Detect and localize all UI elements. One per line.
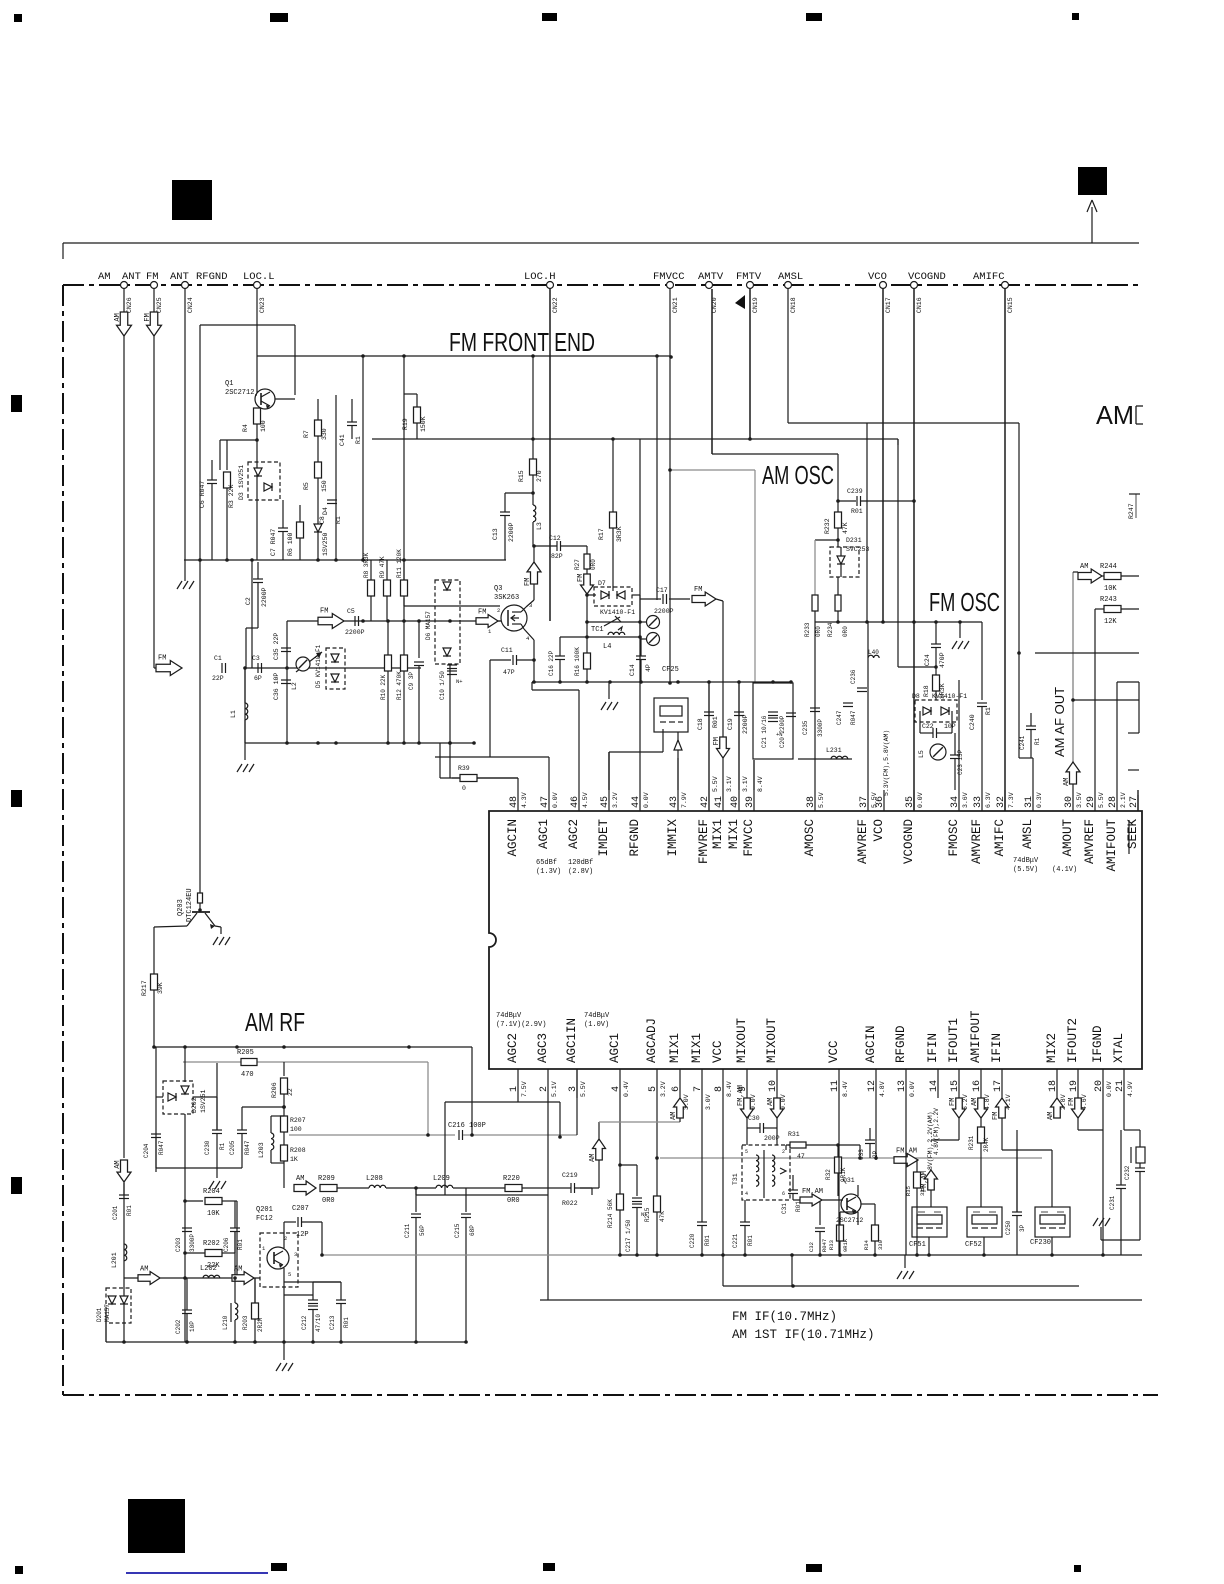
svg-text:AM OSC: AM OSC	[762, 460, 834, 490]
svg-text:4P: 4P	[645, 664, 652, 672]
svg-text:9R1K: 9R1K	[842, 1238, 849, 1252]
svg-text:AMSL: AMSL	[778, 271, 803, 283]
svg-text:3R3K: 3R3K	[616, 526, 623, 542]
svg-text:C35 22P: C35 22P	[273, 633, 280, 660]
svg-text:C18: C18	[697, 718, 704, 730]
svg-text:MA157: MA157	[104, 1304, 111, 1322]
svg-text:R19: R19	[402, 418, 409, 430]
svg-text:C230: C230	[204, 1140, 211, 1155]
svg-text:22: 22	[287, 1088, 294, 1096]
svg-text:C236: C236	[850, 669, 857, 684]
svg-text:0.3V: 0.3V	[1036, 792, 1043, 808]
svg-text:DTC124EU: DTC124EU	[186, 888, 194, 922]
svg-text:MIXOUT: MIXOUT	[765, 1017, 779, 1063]
svg-text:C211: C211	[404, 1223, 411, 1238]
svg-text:C32: C32	[808, 1242, 815, 1252]
svg-text:AM: AM	[1063, 778, 1071, 786]
svg-text:1SV250: 1SV250	[322, 532, 329, 556]
svg-text:R220: R220	[503, 1175, 520, 1183]
svg-text:FM: FM	[144, 313, 152, 321]
svg-text:R206: R206	[271, 1082, 278, 1098]
svg-text:4: 4	[745, 1191, 748, 1197]
svg-text:2: 2	[497, 607, 500, 614]
svg-text:AMVREF: AMVREF	[1083, 819, 1097, 864]
svg-text:KV1410-F1: KV1410-F1	[600, 609, 635, 616]
svg-text:MIX1: MIX1	[711, 819, 725, 849]
svg-text:MIX1: MIX1	[668, 1033, 682, 1063]
svg-text:L203: L203	[258, 1142, 265, 1158]
svg-text:2R2M: 2R2M	[257, 1317, 264, 1332]
svg-text:R10 22K: R10 22K	[380, 674, 387, 700]
svg-text:R33: R33	[828, 1240, 835, 1250]
svg-text:R01: R01	[712, 716, 719, 728]
svg-text:VCO: VCO	[872, 819, 886, 842]
svg-text:L210: L210	[222, 1315, 229, 1330]
svg-text:AM: AM	[971, 1098, 979, 1106]
svg-text:5: 5	[745, 1149, 748, 1155]
svg-text:D231: D231	[846, 537, 862, 544]
svg-text:C9 3P: C9 3P	[408, 672, 415, 690]
svg-text:Q1: Q1	[225, 380, 233, 388]
svg-text:R047: R047	[850, 710, 857, 725]
svg-text:IFIN: IFIN	[990, 1033, 1004, 1063]
svg-text:R27: R27	[574, 559, 581, 570]
svg-text:CN25: CN25	[156, 297, 163, 313]
svg-text:FM OSC: FM OSC	[929, 587, 1000, 617]
svg-text:L1: L1	[230, 710, 237, 718]
svg-text:D202: D202	[191, 1097, 198, 1113]
svg-text:C235: C235	[802, 720, 809, 735]
svg-text:AM: AM	[767, 1098, 775, 1106]
svg-text:FM: FM	[694, 586, 702, 594]
svg-text:C21 10/16: C21 10/16	[761, 715, 768, 748]
svg-text:4.6V: 4.6V	[1081, 1094, 1088, 1110]
svg-text:65dBf: 65dBf	[536, 859, 557, 867]
svg-text:74dBμV: 74dBμV	[496, 1012, 522, 1020]
svg-text:0R0: 0R0	[322, 1197, 335, 1205]
svg-text:R01: R01	[704, 1235, 711, 1246]
svg-text:XTAL: XTAL	[1112, 1033, 1126, 1063]
svg-text:3: 3	[294, 1251, 297, 1258]
svg-text:5.1V: 5.1V	[551, 1081, 558, 1097]
svg-text:(5.5V): (5.5V)	[1013, 866, 1038, 874]
svg-text:22P: 22P	[212, 675, 224, 682]
svg-text:5.5V: 5.5V	[712, 776, 719, 792]
svg-text:200P: 200P	[764, 1135, 780, 1142]
svg-text:7.3V: 7.3V	[1008, 792, 1015, 808]
svg-text:8.4V: 8.4V	[726, 1081, 733, 1097]
svg-text:1K: 1K	[290, 1156, 298, 1163]
svg-text:R208: R208	[290, 1147, 306, 1154]
svg-text:CN18: CN18	[790, 297, 797, 313]
svg-text:5: 5	[288, 1271, 291, 1278]
svg-text:CN23: CN23	[259, 297, 266, 313]
svg-text:AGC2: AGC2	[567, 819, 581, 849]
svg-text:56P: 56P	[419, 1225, 426, 1236]
svg-text:C247: C247	[836, 710, 843, 725]
svg-text:C3: C3	[252, 655, 260, 662]
svg-text:5.5V: 5.5V	[818, 792, 825, 808]
svg-text:C30: C30	[748, 1115, 760, 1122]
svg-text:C7 R047: C7 R047	[270, 529, 277, 556]
svg-text:CF51: CF51	[909, 1241, 926, 1249]
svg-text:R11 120K: R11 120K	[396, 549, 403, 578]
svg-text:2200P: 2200P	[654, 608, 674, 615]
svg-text:2200P: 2200P	[508, 522, 515, 542]
svg-text:IFIN: IFIN	[926, 1033, 940, 1063]
svg-text:AGCIN: AGCIN	[506, 819, 520, 857]
svg-text:0.0V: 0.0V	[909, 1081, 916, 1097]
svg-text:D5 KV1410-F1: D5 KV1410-F1	[315, 644, 322, 688]
svg-text:0R0: 0R0	[815, 626, 822, 637]
svg-text:R231: R231	[968, 1135, 975, 1150]
svg-text:FMVCC: FMVCC	[742, 819, 756, 857]
svg-text:6: 6	[782, 1191, 785, 1197]
svg-text:L3: L3	[536, 522, 543, 530]
svg-text:C24: C24	[924, 654, 931, 666]
svg-text:CF25: CF25	[662, 666, 679, 674]
svg-text:4.5V: 4.5V	[582, 792, 589, 808]
svg-text:C239: C239	[847, 488, 863, 495]
svg-text:AM: AM	[296, 1175, 304, 1183]
svg-text:R18: R18	[923, 685, 930, 697]
svg-text:8.4V: 8.4V	[842, 1081, 849, 1097]
svg-text:C10 1/50: C10 1/50	[439, 671, 446, 700]
svg-text:C1: C1	[214, 655, 222, 662]
svg-text:270: 270	[536, 470, 543, 482]
svg-text:C201: C201	[112, 1205, 119, 1220]
svg-text:(4.1V): (4.1V)	[1052, 866, 1077, 874]
svg-text:100: 100	[260, 420, 267, 432]
svg-text:Q31: Q31	[843, 1177, 855, 1184]
svg-text:5.3V(FM),5.8V(AM): 5.3V(FM),5.8V(AM)	[883, 730, 890, 796]
svg-text:MIX1: MIX1	[727, 819, 741, 849]
svg-text:IFOUT2: IFOUT2	[1066, 1018, 1080, 1063]
svg-text:2.8V: 2.8V	[1060, 1094, 1067, 1110]
svg-text:CN26: CN26	[126, 297, 133, 313]
svg-text:6.2V: 6.2V	[962, 1094, 969, 1110]
svg-text:D201: D201	[96, 1307, 103, 1322]
svg-text:L231: L231	[826, 747, 842, 754]
svg-text:R01: R01	[851, 508, 863, 515]
svg-text:AMIFC: AMIFC	[973, 271, 1005, 283]
svg-text:7.5V: 7.5V	[521, 1081, 528, 1097]
svg-text:Q201: Q201	[256, 1206, 273, 1214]
svg-text:R01: R01	[343, 1317, 350, 1328]
svg-text:R202: R202	[203, 1240, 220, 1248]
svg-text:AM: AM	[589, 1154, 597, 1162]
svg-text:(1.0V): (1.0V)	[584, 1021, 609, 1029]
svg-text:0R0: 0R0	[590, 559, 597, 570]
svg-text:R232: R232	[824, 518, 831, 534]
svg-text:C206: C206	[223, 1237, 230, 1252]
svg-text:8.4V: 8.4V	[757, 776, 764, 792]
svg-text:MIX2: MIX2	[1045, 1033, 1059, 1063]
svg-text:FM: FM	[158, 655, 166, 663]
svg-text:C219: C219	[562, 1172, 578, 1179]
svg-text:TC1: TC1	[591, 626, 604, 634]
svg-text:CN21: CN21	[672, 297, 679, 313]
svg-text:C17: C17	[656, 587, 668, 594]
svg-text:R39: R39	[458, 765, 470, 772]
svg-text:R207: R207	[290, 1117, 306, 1124]
svg-text:AM: AM	[1096, 400, 1134, 430]
svg-text:C250: C250	[1005, 1220, 1012, 1235]
svg-text:L202: L202	[200, 1265, 217, 1273]
svg-text:R234: R234	[827, 622, 834, 637]
svg-text:47: 47	[797, 1153, 805, 1160]
svg-text:0R0: 0R0	[842, 626, 849, 637]
svg-text:LOC.L: LOC.L	[243, 271, 275, 283]
svg-text:L201: L201	[111, 1252, 118, 1268]
svg-text:L2: L2	[291, 682, 298, 690]
svg-text:VCOGND: VCOGND	[902, 819, 916, 864]
svg-text:FM: FM	[949, 1098, 957, 1106]
svg-text:FM FRONT END: FM FRONT END	[449, 327, 595, 357]
svg-text:FM: FM	[577, 574, 585, 582]
svg-text:AGC1: AGC1	[608, 1033, 622, 1063]
svg-text:R32: R32	[825, 1169, 832, 1180]
svg-text:AGCIN: AGCIN	[864, 1025, 878, 1063]
svg-text:C232: C232	[1124, 1165, 1131, 1180]
svg-text:3.0V: 3.0V	[705, 1094, 712, 1110]
svg-text:AM: AM	[1080, 563, 1088, 571]
svg-text:68P: 68P	[469, 1225, 476, 1236]
svg-text:R233: R233	[804, 622, 811, 637]
svg-text:AM: AM	[234, 1266, 242, 1274]
svg-text:AM: AM	[114, 313, 122, 321]
svg-text:FM,AM: FM,AM	[802, 1188, 823, 1196]
svg-text:AGC1: AGC1	[537, 819, 551, 849]
svg-text:C36 10P: C36 10P	[273, 673, 280, 700]
svg-text:CN22: CN22	[552, 297, 559, 313]
svg-text:C5: C5	[347, 608, 355, 615]
svg-text:3300P: 3300P	[817, 719, 824, 737]
svg-text:AM 1ST IF(10.71MHz): AM 1ST IF(10.71MHz)	[732, 1328, 875, 1342]
svg-text:Q3: Q3	[494, 585, 502, 593]
svg-text:82P: 82P	[551, 553, 563, 560]
svg-text:FMOSC: FMOSC	[947, 819, 961, 857]
svg-text:AM: AM	[1047, 1112, 1055, 1120]
svg-text:0.0V: 0.0V	[780, 1094, 787, 1110]
svg-text:2: 2	[782, 1149, 785, 1155]
svg-text:C213: C213	[329, 1315, 336, 1330]
svg-text:MIX1: MIX1	[690, 1033, 704, 1063]
svg-text:3.2V: 3.2V	[612, 792, 619, 808]
svg-text:AM AF OUT: AM AF OUT	[1052, 687, 1067, 757]
svg-text:MIXOUT: MIXOUT	[735, 1017, 749, 1063]
svg-text:4.8V(FM),2.2V: 4.8V(FM),2.2V	[933, 1108, 940, 1155]
svg-text:AMIFOUT: AMIFOUT	[1105, 819, 1119, 872]
svg-text:(1.3V): (1.3V)	[536, 868, 561, 876]
svg-text:2R4K: 2R4K	[983, 1137, 990, 1152]
svg-text:CN24: CN24	[187, 297, 194, 313]
svg-text:D4: D4	[322, 507, 329, 515]
svg-text:(7.1V)(2.9V): (7.1V)(2.9V)	[496, 1021, 546, 1029]
svg-text:10K: 10K	[1104, 585, 1117, 593]
svg-text:2200P: 2200P	[345, 629, 365, 636]
svg-text:470: 470	[241, 1071, 254, 1079]
svg-text:3P: 3P	[1019, 1224, 1026, 1232]
svg-text:C2: C2	[245, 597, 252, 605]
svg-text:R17: R17	[598, 528, 605, 540]
svg-text:CN19: CN19	[752, 297, 759, 313]
svg-text:C216 100P: C216 100P	[448, 1122, 486, 1130]
svg-text:5.5V: 5.5V	[580, 1081, 587, 1097]
svg-text:FM: FM	[146, 271, 159, 283]
svg-text:AM: AM	[98, 271, 111, 283]
svg-text:C16 22P: C16 22P	[548, 650, 555, 676]
svg-text:R3 22K: R3 22K	[228, 484, 235, 508]
svg-text:FM: FM	[524, 578, 532, 586]
svg-text:CN17: CN17	[885, 297, 892, 313]
svg-text:R34: R34	[863, 1239, 870, 1250]
svg-text:R01: R01	[237, 1239, 244, 1250]
svg-text:C207: C207	[292, 1205, 309, 1213]
svg-text:0.4V: 0.4V	[623, 1081, 630, 1097]
svg-text:6.3V: 6.3V	[985, 792, 992, 808]
svg-text:2200P: 2200P	[261, 587, 268, 607]
svg-text:R1: R1	[355, 436, 362, 444]
svg-text:120dBf: 120dBf	[568, 859, 593, 867]
svg-text:FM: FM	[992, 1112, 1000, 1120]
svg-text:R8 3R3K: R8 3R3K	[363, 552, 370, 578]
svg-text:D6 MA157: D6 MA157	[425, 611, 432, 640]
svg-text:AM: AM	[670, 1112, 678, 1120]
svg-text:D3 1SV251: D3 1SV251	[238, 465, 245, 500]
svg-text:CN16: CN16	[916, 297, 923, 313]
svg-text:470P: 470P	[939, 652, 946, 668]
svg-text:C240: C240	[969, 714, 976, 730]
svg-text:R244: R244	[1100, 563, 1117, 571]
svg-text:4.9V: 4.9V	[1127, 1081, 1134, 1097]
svg-text:C212: C212	[301, 1315, 308, 1330]
svg-text:L209: L209	[433, 1175, 450, 1183]
svg-text:D7: D7	[598, 580, 606, 587]
svg-text:C41: C41	[339, 434, 346, 446]
svg-text:R01: R01	[126, 1205, 133, 1216]
svg-text:C22: C22	[922, 723, 934, 730]
svg-text:FM: FM	[478, 609, 486, 617]
svg-text:RFGND: RFGND	[628, 819, 642, 857]
svg-text:SEEK: SEEK	[1126, 819, 1140, 850]
svg-text:10P: 10P	[189, 1321, 196, 1332]
svg-text:3.0V: 3.0V	[683, 1094, 690, 1110]
svg-text:AGC3: AGC3	[536, 1033, 550, 1063]
svg-text:AMTV: AMTV	[698, 271, 724, 283]
svg-text:1SV251: 1SV251	[200, 1089, 207, 1113]
svg-text:R1: R1	[985, 707, 992, 715]
svg-text:VCC: VCC	[711, 1040, 725, 1063]
svg-text:0.0V: 0.0V	[643, 792, 650, 808]
svg-text:AMVREF: AMVREF	[970, 819, 984, 864]
svg-text:IMMIX: IMMIX	[666, 819, 680, 857]
svg-text:AGC1IN: AGC1IN	[565, 1018, 579, 1063]
svg-text:C19: C19	[727, 718, 734, 730]
svg-text:R047: R047	[821, 1239, 828, 1252]
svg-text:R217: R217	[141, 980, 148, 996]
svg-text:5.5V: 5.5V	[1098, 792, 1105, 808]
svg-text:R31: R31	[788, 1131, 800, 1138]
svg-text:RFGND: RFGND	[196, 271, 228, 283]
svg-text:4.8V: 4.8V	[984, 1094, 991, 1110]
svg-text:C221: C221	[732, 1233, 739, 1248]
svg-text:R6 100: R6 100	[287, 532, 294, 556]
svg-text:12K: 12K	[1104, 618, 1117, 626]
svg-text:AMSL: AMSL	[1021, 819, 1035, 849]
svg-text:0.0V: 0.0V	[552, 792, 559, 808]
svg-text:R205: R205	[237, 1049, 254, 1057]
svg-text:AM: AM	[140, 1266, 148, 1274]
svg-text:(2.8V): (2.8V)	[568, 868, 593, 876]
svg-text:IMDET: IMDET	[597, 819, 611, 857]
svg-text:47K: 47K	[842, 522, 849, 534]
svg-text:4.1V: 4.1V	[1005, 1094, 1012, 1110]
svg-text:R204: R204	[203, 1188, 220, 1196]
svg-text:AM RF: AM RF	[245, 1007, 305, 1037]
svg-text:R15: R15	[518, 470, 525, 482]
svg-text:R01: R01	[747, 1235, 754, 1246]
svg-text:AMIFOUT: AMIFOUT	[969, 1010, 983, 1063]
svg-text:N+: N+	[456, 678, 463, 685]
svg-text:4.8V: 4.8V	[879, 1081, 886, 1097]
svg-text:AGCADJ: AGCADJ	[645, 1018, 659, 1063]
svg-text:2SC2712: 2SC2712	[225, 389, 254, 397]
svg-text:4.3V: 4.3V	[521, 792, 528, 808]
svg-text:T31: T31	[732, 1173, 739, 1185]
svg-text:CN15: CN15	[1007, 297, 1014, 313]
svg-text:C203: C203	[175, 1237, 182, 1252]
svg-text:R214 56K: R214 56K	[607, 1199, 614, 1228]
svg-text:C13: C13	[492, 528, 499, 540]
svg-text:2200P: 2200P	[742, 714, 749, 734]
svg-text:FC12: FC12	[256, 1215, 273, 1223]
svg-text:74dBμV: 74dBμV	[1013, 857, 1039, 865]
svg-text:AMOUT: AMOUT	[1061, 819, 1075, 857]
svg-text:R5: R5	[303, 482, 310, 490]
svg-text:FM: FM	[320, 608, 328, 616]
svg-text:C215: C215	[454, 1223, 461, 1238]
svg-text:VCC: VCC	[827, 1040, 841, 1063]
svg-text:0.0V: 0.0V	[917, 792, 924, 808]
svg-text:C20 2200P: C20 2200P	[779, 715, 786, 748]
svg-text:R243: R243	[1100, 596, 1117, 604]
svg-text:R4: R4	[242, 424, 249, 432]
svg-text:3.1V: 3.1V	[742, 776, 749, 792]
svg-text:L5: L5	[918, 750, 925, 758]
svg-text:R247: R247	[1128, 503, 1135, 519]
svg-text:330: 330	[919, 1186, 926, 1196]
svg-text:47K: 47K	[659, 1211, 666, 1222]
svg-text:330: 330	[877, 1240, 884, 1250]
svg-text:AM: AM	[114, 1160, 122, 1168]
svg-text:3SK263: 3SK263	[494, 594, 519, 602]
svg-text:FM,AM: FM,AM	[737, 1085, 745, 1106]
svg-text:C12: C12	[549, 535, 561, 542]
svg-text:C217 1/50: C217 1/50	[625, 1219, 632, 1252]
svg-text:100: 100	[290, 1126, 302, 1133]
svg-text:C23 15P: C23 15P	[957, 749, 964, 775]
svg-text:CF230: CF230	[1030, 1239, 1051, 1247]
svg-text:IFGND: IFGND	[1091, 1025, 1105, 1063]
svg-text:47/10: 47/10	[315, 1314, 322, 1332]
svg-text:10P: 10P	[944, 723, 956, 730]
svg-text:C204: C204	[143, 1143, 150, 1158]
svg-text:AMVREF: AMVREF	[856, 819, 870, 864]
svg-text:R12 470K: R12 470K	[396, 671, 403, 700]
svg-text:L4: L4	[603, 643, 611, 651]
svg-text:C231: C231	[1109, 1195, 1116, 1210]
